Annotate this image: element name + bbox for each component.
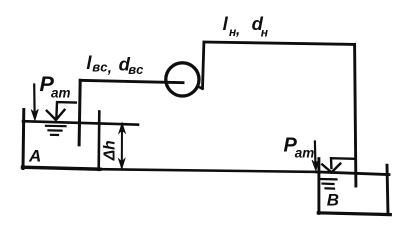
tank A water surface line — [23, 121, 138, 124]
tank B right wall — [387, 165, 388, 214]
svg-text:ат: ат — [51, 86, 71, 101]
suction pipe vertical — [79, 80, 80, 145]
P_at arrow A — [31, 85, 38, 121]
dh dimension line — [118, 123, 125, 170]
svg-text:Δh: Δh — [101, 140, 118, 161]
tank B bottom — [318, 213, 390, 215]
datum line to tank B — [100, 169, 317, 172]
discharge down pipe — [355, 44, 356, 186]
level dashes B — [321, 179, 337, 189]
level dashes A — [46, 126, 66, 135]
label l_vs, d_vs — [86, 52, 144, 77]
tank B water surface line — [317, 172, 389, 175]
water level arrow B — [322, 164, 340, 173]
label P_at (tank A) — [40, 72, 71, 101]
tank B left wall — [317, 159, 320, 214]
discharge top pipe — [204, 42, 355, 44]
suction pipe horizontal — [80, 80, 183, 82]
label l_n, d_n — [223, 13, 269, 40]
P_at arrow B — [312, 142, 319, 171]
svg-text:вс: вс — [92, 60, 108, 75]
svg-text:ат: ат — [295, 146, 315, 161]
svg-text:,: , — [235, 22, 240, 39]
pump circle — [166, 63, 199, 96]
water level leader B — [331, 158, 355, 168]
label P_at (tank B) — [284, 135, 315, 161]
discharge pipe stub from pump — [203, 42, 204, 88]
svg-text:A: A — [28, 147, 41, 166]
water level arrow A — [47, 110, 65, 120]
tank A left wall — [22, 110, 26, 169]
tank A right wall — [97, 112, 100, 170]
stub-pump junction — [197, 86, 202, 88]
svg-text:l: l — [223, 13, 229, 34]
tank A bottom — [23, 167, 101, 169]
svg-text:н: н — [261, 26, 269, 40]
svg-text:вс: вс — [128, 62, 144, 77]
svg-text:,: , — [107, 60, 112, 77]
svg-text:B: B — [327, 190, 339, 209]
water level leader A — [56, 102, 75, 117]
